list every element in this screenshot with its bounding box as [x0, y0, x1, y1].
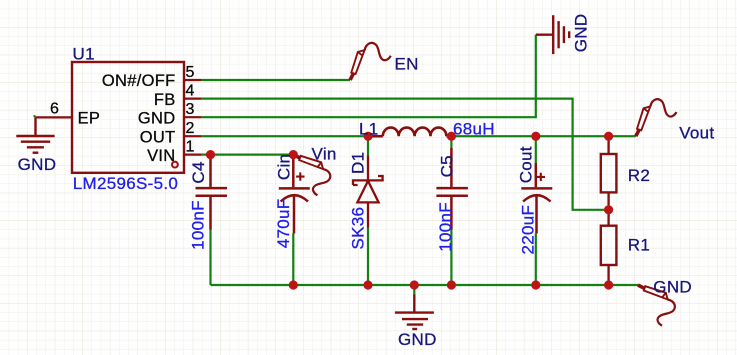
- svg-text:Cout: Cout: [516, 146, 535, 183]
- svg-text:3: 3: [186, 101, 195, 118]
- svg-text:L1: L1: [359, 120, 379, 139]
- svg-text:5: 5: [186, 64, 195, 81]
- svg-text:Cin: Cin: [275, 154, 294, 180]
- svg-text:FB: FB: [154, 91, 176, 109]
- svg-text:C4: C4: [189, 161, 208, 183]
- svg-text:C5: C5: [438, 155, 457, 177]
- svg-text:EP: EP: [78, 110, 101, 128]
- svg-text:LM2596S-5.0: LM2596S-5.0: [73, 174, 178, 193]
- svg-text:GND: GND: [18, 155, 57, 174]
- svg-text:6: 6: [50, 100, 59, 117]
- svg-text:470uF: 470uF: [274, 199, 293, 249]
- svg-text:GND: GND: [572, 14, 591, 53]
- svg-text:2: 2: [186, 120, 195, 137]
- svg-text:Vout: Vout: [679, 123, 714, 142]
- svg-text:68uH: 68uH: [453, 119, 495, 138]
- svg-text:U1: U1: [73, 44, 95, 63]
- svg-text:GND: GND: [653, 277, 692, 296]
- svg-text:D1: D1: [349, 152, 368, 174]
- svg-text:R2: R2: [628, 166, 650, 185]
- svg-text:100nF: 100nF: [436, 202, 455, 252]
- svg-text:Vin: Vin: [312, 145, 337, 164]
- svg-text:220uF: 220uF: [519, 205, 538, 255]
- svg-text:OUT: OUT: [140, 128, 176, 146]
- svg-text:EN: EN: [395, 55, 419, 74]
- svg-text:VIN: VIN: [147, 147, 175, 165]
- svg-text:4: 4: [186, 83, 195, 100]
- svg-text:R1: R1: [628, 236, 650, 255]
- svg-text:GND: GND: [398, 330, 437, 349]
- svg-text:ON#/OFF: ON#/OFF: [102, 72, 176, 90]
- svg-text:GND: GND: [138, 109, 176, 127]
- svg-text:1: 1: [186, 139, 195, 156]
- svg-text:SK36: SK36: [349, 207, 368, 250]
- svg-text:100nF: 100nF: [189, 200, 208, 250]
